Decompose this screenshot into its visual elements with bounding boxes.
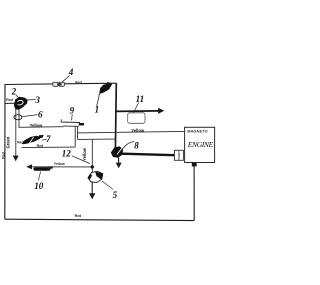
fuse 10 end cap: [48, 166, 53, 169]
leader 12: [72, 156, 90, 164]
wire top Red: [5, 83, 116, 84]
svg-text:9: 9: [70, 106, 75, 116]
wire red left y147: [22, 146, 76, 149]
relay 11 box: [128, 113, 145, 124]
svg-text:5: 5: [113, 190, 118, 200]
connector 4 pin: [57, 83, 61, 85]
wire yellow left: [19, 126, 64, 129]
connector 8 black plug: [111, 146, 123, 157]
plug 5 dark left: [88, 174, 92, 180]
wire arrow below connector 8: [118, 158, 120, 164]
arrowhead 8 down: [116, 163, 122, 169]
switch 9 lower bar: [63, 125, 79, 127]
svg-text:11: 11: [136, 94, 145, 104]
key switch highlight: [18, 100, 24, 105]
lamp 6 circle: [14, 115, 22, 120]
svg-text:Red: Red: [1, 152, 5, 159]
svg-text:Red: Red: [6, 98, 13, 102]
svg-text:Yellow: Yellow: [30, 123, 44, 128]
svg-text:12: 12: [62, 148, 72, 158]
wire yellow to engine: [77, 131, 184, 133]
connector 4 housing: [53, 82, 65, 86]
fuse 10 body: [33, 167, 50, 171]
leader 6: [22, 115, 37, 117]
junction dot engine bottom: [192, 162, 197, 166]
svg-text:Red: Red: [75, 80, 82, 84]
svg-text:Yellow: Yellow: [82, 147, 87, 161]
svg-text:Yellow: Yellow: [131, 128, 145, 133]
plug 5 black wedge: [95, 171, 103, 179]
switch 9 contact: [79, 123, 84, 125]
key switch 2/3 body: [14, 97, 28, 110]
leader 4: [62, 75, 69, 81]
wire below plug 5: [91, 182, 93, 194]
wire main vertical drop: [114, 83, 117, 149]
svg-text:8: 8: [134, 140, 139, 150]
switch 9 leg B: [77, 126, 79, 139]
svg-text:6: 6: [38, 109, 43, 119]
engine box: [185, 127, 215, 162]
svg-text:Red: Red: [37, 144, 44, 148]
svg-text:Yellow: Yellow: [54, 162, 65, 166]
leader 2: [16, 95, 19, 98]
wire thick to starter box: [122, 154, 175, 156]
leader 11: [134, 103, 139, 113]
wire yellow vertical mid: [91, 139, 93, 172]
svg-text:10: 10: [34, 181, 44, 191]
leader 3: [28, 99, 36, 101]
leader 1: [97, 96, 100, 107]
arrowhead right: [158, 108, 164, 114]
leader 5: [102, 181, 113, 189]
arrowhead 5 down: [89, 193, 95, 199]
connector 1 needle: [99, 93, 101, 96]
svg-text:ENGINE: ENGINE: [187, 140, 214, 149]
starter terminal box: [174, 150, 183, 160]
wire left border: [4, 84, 6, 219]
wire stub to key switch: [5, 102, 15, 104]
wire arrow branch: [116, 110, 159, 113]
switch 9 leg A: [74, 126, 76, 147]
wire fuse yellow: [30, 166, 92, 168]
leader 9: [71, 114, 74, 120]
svg-text:Red: Red: [75, 214, 82, 218]
wire mid branch: [78, 138, 116, 140]
arrowhead fuse left: [26, 164, 32, 169]
svg-text:Green: Green: [5, 136, 10, 148]
leader 8: [123, 142, 134, 149]
svg-text:START: START: [177, 151, 181, 160]
connector 1 tip: [106, 82, 112, 87]
switch 9 top bar: [61, 119, 80, 122]
svg-text:MAGNETO: MAGNETO: [187, 129, 208, 133]
wire bottom Red: [5, 219, 195, 220]
svg-text:1: 1: [95, 104, 100, 114]
wire green vertical: [15, 109, 17, 157]
svg-text:Red: Red: [17, 141, 24, 145]
connector 7 tip: [39, 135, 44, 139]
plug 5 body: [88, 171, 103, 182]
arrowhead green down: [13, 156, 19, 162]
leader 10: [38, 172, 40, 181]
connector 7 black plug: [22, 136, 40, 144]
connector 7 white gap: [30, 137, 34, 143]
wire right border: [193, 164, 195, 221]
wire to lamp 6: [18, 109, 20, 128]
svg-text:3: 3: [34, 95, 40, 105]
junction dot fuse/vert: [91, 165, 94, 168]
svg-text:7: 7: [46, 134, 51, 144]
connector 8 slash: [117, 148, 122, 154]
svg-text:4: 4: [68, 67, 74, 77]
connector 1 black plug: [99, 84, 111, 94]
leader 7: [42, 138, 47, 141]
